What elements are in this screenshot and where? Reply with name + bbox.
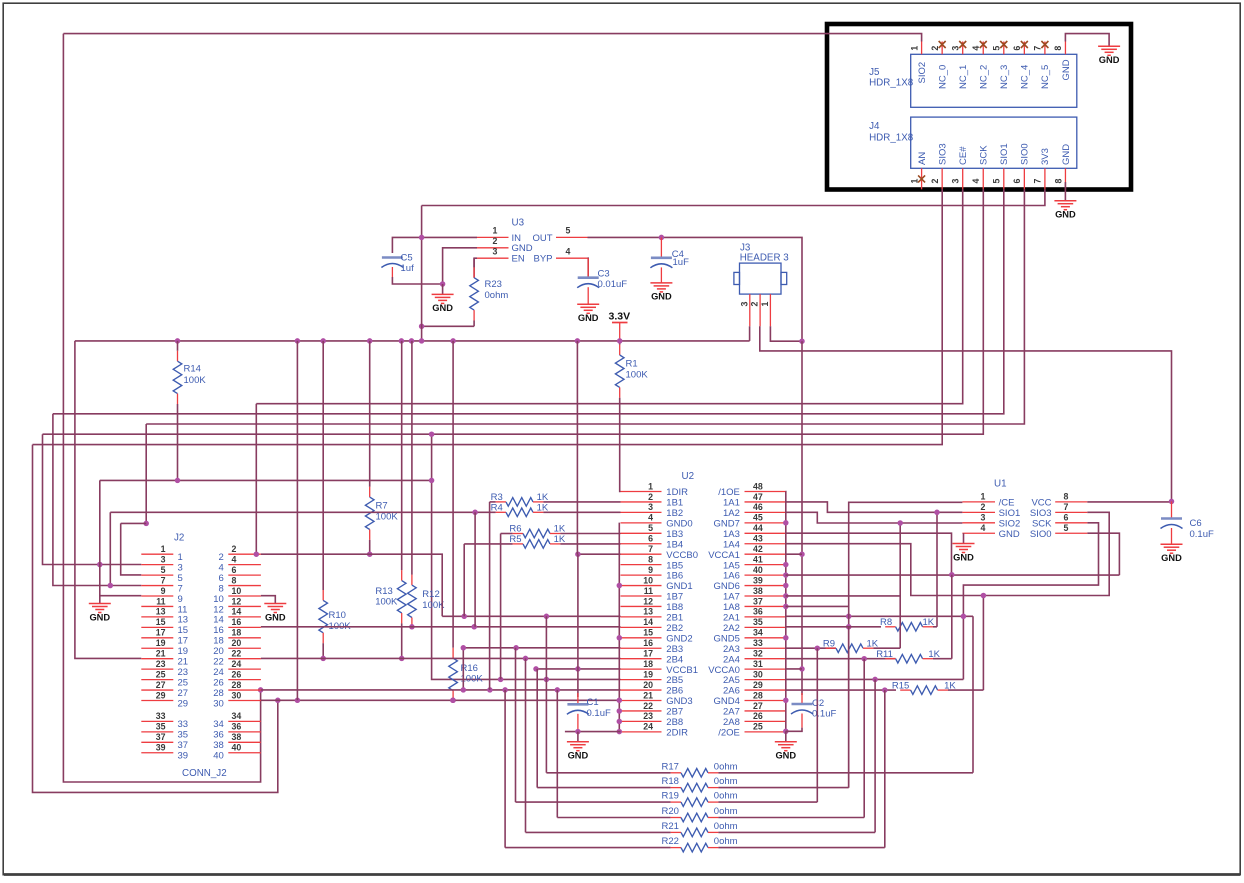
svg-text:GND: GND	[775, 751, 796, 761]
junction C4 tap	[659, 235, 665, 241]
svg-text:22: 22	[643, 701, 653, 711]
svg-text:3: 3	[951, 179, 961, 184]
svg-text:0ohm: 0ohm	[714, 806, 738, 817]
svg-text:SCK: SCK	[979, 145, 990, 165]
svg-text:2A8: 2A8	[723, 717, 740, 728]
svg-text:6: 6	[648, 534, 653, 544]
svg-text:4: 4	[648, 513, 653, 523]
svg-text:26: 26	[753, 711, 763, 721]
svg-text:8: 8	[1064, 492, 1069, 502]
svg-text:HDR_1X8: HDR_1X8	[869, 132, 914, 143]
svg-text:19: 19	[156, 638, 166, 648]
ground symbol below C6	[1161, 544, 1183, 563]
svg-text:1A7: 1A7	[723, 592, 740, 603]
svg-text:0.1uF: 0.1uF	[812, 708, 836, 719]
wire J3 pin2 long wire to C6	[760, 326, 1172, 501]
svg-text:25: 25	[178, 677, 189, 688]
wire R22 left riser	[504, 690, 506, 848]
svg-text:21: 21	[178, 657, 189, 668]
svg-text:1: 1	[981, 492, 986, 502]
wire 2B3 row drop to 2B6 row	[462, 648, 464, 690]
svg-text:1B2: 1B2	[666, 508, 683, 519]
wire 1A4 to U1 SIO3 route	[786, 512, 1110, 595]
wire SIO3 row down to bottom rail	[33, 445, 278, 793]
svg-text:3V3: 3V3	[1040, 148, 1051, 165]
svg-text:25: 25	[156, 669, 166, 679]
wire SCK row down to J2 pin3	[43, 434, 142, 564]
junction 3.3V vertical at U3 IN wire	[419, 235, 425, 241]
svg-text:1A4: 1A4	[723, 539, 740, 550]
wire 2B3 row to U2	[463, 647, 620, 649]
wire U1 GND drop	[963, 533, 965, 543]
wire J3 pin3 to 3.3V bus	[749, 326, 751, 341]
svg-text:11: 11	[156, 596, 165, 606]
svg-text:R23: R23	[485, 279, 502, 290]
wire J2 pin22 row to U2 2B4	[261, 657, 621, 659]
resistor R14 100K	[173, 341, 206, 481]
svg-text:2B6: 2B6	[666, 686, 683, 697]
svg-text:100K: 100K	[376, 512, 399, 523]
svg-text:9: 9	[161, 586, 166, 596]
junction SCK drop on 2A1 row	[961, 614, 967, 620]
svg-text:1K: 1K	[867, 638, 879, 649]
svg-text:GND3: GND3	[666, 696, 692, 707]
wire 3.3V horizontal bus	[75, 340, 750, 342]
svg-text:33: 33	[156, 711, 166, 721]
junction R23/3.3V vertical	[419, 324, 425, 330]
wire bus drop to pin30 row	[296, 341, 298, 700]
wire 1A1 to U1 SIO1	[786, 502, 963, 512]
svg-text:/2OE: /2OE	[718, 727, 740, 738]
junction on 3.3V bus	[399, 338, 405, 344]
svg-text:38: 38	[753, 586, 763, 596]
svg-text:/1OE: /1OE	[718, 487, 740, 498]
svg-text:1A1: 1A1	[723, 498, 740, 509]
svg-text:26: 26	[232, 669, 242, 679]
svg-text:8: 8	[219, 583, 224, 594]
junction on 3.3V bus	[175, 338, 181, 344]
wire J4 pin4 SCK down to row	[43, 189, 984, 434]
svg-text:23: 23	[156, 659, 166, 669]
ground symbol right of J2	[264, 604, 286, 623]
svg-text:U1: U1	[994, 479, 1007, 490]
svg-text:3: 3	[648, 502, 653, 512]
junction R15/SIO3	[981, 593, 987, 599]
resistor R21 0ohm	[526, 821, 876, 837]
svg-text:SIO1: SIO1	[999, 143, 1010, 165]
svg-text:NC_1: NC_1	[958, 65, 969, 89]
regulator U3 (IN,GND,EN / OUT,BYP)	[477, 218, 588, 265]
svg-text:GND: GND	[568, 751, 589, 761]
ground symbol below C3	[577, 304, 599, 323]
junction SIO0 branch	[143, 521, 149, 527]
svg-text:SIO3: SIO3	[1030, 508, 1052, 519]
svg-text:6: 6	[232, 565, 237, 575]
svg-text:35: 35	[753, 617, 763, 627]
wire 2A6 row	[786, 689, 897, 691]
svg-text:36: 36	[753, 607, 763, 617]
svg-text:SIO0: SIO0	[1020, 143, 1031, 165]
wire R5 left drop	[463, 544, 465, 616]
svg-text:39: 39	[753, 575, 763, 585]
svg-text:4: 4	[971, 46, 981, 51]
svg-text:3: 3	[161, 554, 166, 564]
resistor R9 1K	[823, 638, 900, 652]
svg-text:0ohm: 0ohm	[714, 761, 738, 772]
resistor R15 1K	[892, 680, 984, 694]
svg-text:U2: U2	[682, 471, 695, 482]
svg-text:1K: 1K	[554, 524, 566, 535]
svg-text:2: 2	[648, 492, 653, 502]
svg-text:1uf: 1uf	[401, 263, 415, 274]
svg-text:1A6: 1A6	[723, 571, 740, 582]
wire VCCB rail from bus	[576, 341, 578, 554]
wire 3.3V vertical from 3V3 row to bus	[421, 206, 423, 342]
svg-text:VCC: VCC	[1031, 498, 1051, 509]
svg-text:0ohm: 0ohm	[714, 836, 738, 847]
svg-text:8: 8	[648, 554, 653, 564]
svg-text:R21: R21	[662, 821, 679, 832]
svg-text:36: 36	[232, 722, 242, 732]
junction 2A6 at R22 riser	[882, 687, 888, 693]
wire C5 top to U3 IN	[392, 237, 477, 253]
svg-text:17: 17	[643, 649, 653, 659]
svg-text:NC_2: NC_2	[979, 65, 990, 89]
junction 2A4 at R20 riser	[861, 656, 867, 662]
svg-text:15: 15	[156, 617, 166, 627]
svg-text:6: 6	[219, 573, 224, 584]
junction 2B3 row taps	[461, 645, 519, 651]
svg-text:30: 30	[213, 698, 224, 709]
junction J3 pin1 / OUT vertical	[799, 338, 805, 344]
svg-text:16: 16	[232, 617, 242, 627]
svg-text:41: 41	[753, 554, 763, 564]
svg-text:2A2: 2A2	[723, 623, 740, 634]
svg-text:37: 37	[156, 732, 166, 742]
svg-text:IN: IN	[512, 233, 522, 244]
svg-text:1: 1	[178, 552, 183, 563]
svg-text:23: 23	[178, 667, 189, 678]
wire R20 left riser	[556, 690, 558, 818]
svg-text:1: 1	[161, 544, 166, 554]
junction R4 riser on J2 pin7 row	[108, 583, 114, 589]
resistor R11 1K	[876, 649, 952, 663]
svg-text:26: 26	[213, 677, 224, 688]
svg-text:/CE: /CE	[999, 498, 1015, 509]
svg-text:R17: R17	[662, 761, 679, 772]
wire VCCB0 row from rail B	[578, 553, 621, 555]
svg-text:18: 18	[232, 628, 242, 638]
wire CE# row down to J2 pin2 net	[255, 404, 257, 555]
wire R15 right riser to SIO3 row	[982, 596, 984, 691]
svg-text:27: 27	[178, 688, 189, 699]
svg-text:C5: C5	[401, 252, 413, 263]
junction 2B6 row taps	[487, 687, 560, 693]
resistor R18 0ohm	[537, 776, 849, 792]
resistor R8 1K	[880, 617, 937, 631]
svg-text:30: 30	[232, 690, 242, 700]
wire J4 pin8 to GND	[1064, 182, 1066, 201]
svg-text:1uF: 1uF	[673, 257, 690, 268]
wire R21 left riser	[525, 658, 527, 832]
wire U1 SCK route down to 2A5 row	[963, 523, 1098, 680]
resistor R3 1K	[490, 492, 621, 506]
junction VCC/C6	[1169, 499, 1175, 505]
svg-text:U3: U3	[512, 218, 525, 229]
svg-text:GND0: GND0	[666, 518, 692, 529]
wire U3 OUT to right vertical	[588, 237, 803, 341]
svg-text:R9: R9	[823, 638, 835, 649]
svg-text:14: 14	[232, 607, 242, 617]
svg-text:1DIR: 1DIR	[666, 487, 688, 498]
svg-text:2: 2	[930, 179, 940, 184]
svg-text:7: 7	[161, 575, 166, 585]
svg-text:VCCB1: VCCB1	[666, 665, 698, 676]
junction 1A3/SIO0	[949, 572, 955, 578]
svg-text:2B2: 2B2	[666, 623, 683, 634]
svg-text:GND: GND	[953, 552, 974, 562]
svg-text:33: 33	[178, 719, 189, 730]
junction R12 bottom on pin16 row	[409, 624, 415, 630]
junction 2B3 drop on 2B6 row	[461, 687, 467, 693]
wire VCCA1 row	[786, 553, 803, 555]
svg-text:10: 10	[643, 575, 653, 585]
svg-text:100K: 100K	[626, 370, 649, 381]
black highlight box around headers J4 and J5	[827, 24, 1131, 190]
svg-text:GND: GND	[1161, 553, 1182, 563]
svg-text:1K: 1K	[554, 534, 566, 545]
svg-text:24: 24	[213, 667, 224, 678]
svg-text:2B4: 2B4	[666, 654, 683, 665]
ground symbol left of J2	[89, 596, 111, 623]
svg-text:0ohm: 0ohm	[485, 290, 509, 301]
svg-text:NC_4: NC_4	[1020, 65, 1031, 89]
wire R21 right riser	[874, 679, 876, 832]
svg-text:5: 5	[648, 523, 653, 533]
svg-text:BYP: BYP	[533, 254, 552, 265]
wire SIO1 row down to J2 pin7	[53, 414, 141, 586]
junction R14 bottom	[175, 478, 181, 484]
svg-text:18: 18	[643, 659, 653, 669]
svg-text:NC_3: NC_3	[999, 65, 1010, 89]
svg-text:28: 28	[232, 680, 242, 690]
wire J4 pin3 CE# down to row	[256, 189, 962, 403]
svg-text:2: 2	[981, 502, 986, 512]
svg-text:43: 43	[753, 534, 763, 544]
wire 2A2 row	[786, 626, 882, 628]
connector J3 HEADER 3	[734, 243, 789, 327]
wire R3 left drop	[489, 502, 491, 690]
svg-text:3: 3	[981, 513, 986, 523]
ground symbol below C1	[567, 732, 589, 761]
svg-text:0.1uF: 0.1uF	[1190, 529, 1214, 540]
svg-text:6: 6	[1012, 179, 1022, 184]
svg-text:EN: EN	[512, 254, 525, 265]
resistor R10 100K	[319, 341, 351, 659]
svg-text:2A1: 2A1	[723, 613, 740, 624]
svg-text:34: 34	[213, 719, 224, 730]
wire 2DIR ground row	[565, 731, 621, 733]
svg-text:2A7: 2A7	[723, 707, 740, 718]
svg-text:0.1uF: 0.1uF	[587, 708, 611, 719]
svg-text:0ohm: 0ohm	[714, 821, 738, 832]
svg-text:2: 2	[750, 302, 760, 307]
svg-text:37: 37	[178, 740, 189, 751]
wire R9 right to SIO2	[899, 523, 901, 648]
svg-text:R11: R11	[876, 649, 893, 660]
wire ground node stem	[442, 284, 444, 294]
wire R19 left riser	[515, 648, 517, 802]
svg-text:8: 8	[1053, 46, 1063, 51]
resistor R7 100K	[365, 341, 398, 540]
wire 2A1 row	[786, 615, 974, 617]
junction R21 riser on 2A5 row	[872, 677, 878, 683]
svg-text:R19: R19	[662, 791, 679, 802]
wire 1A3 row to SIO0 net	[786, 533, 952, 575]
IC U2 48-pin bus transceiver	[621, 471, 786, 738]
svg-text:GND: GND	[89, 612, 110, 622]
capacitor C4	[650, 237, 689, 283]
svg-text:21: 21	[156, 649, 166, 659]
junction CE drop on 2A1 row	[846, 614, 852, 620]
junction 2B4 row tap	[523, 656, 529, 662]
svg-text:GND4: GND4	[713, 696, 739, 707]
junction ground node below U3	[440, 281, 446, 287]
capacitor C5	[381, 252, 414, 277]
svg-text:SIO1: SIO1	[999, 508, 1021, 519]
svg-text:R13: R13	[375, 586, 392, 597]
svg-text:6: 6	[1012, 46, 1022, 51]
svg-text:14: 14	[213, 615, 224, 626]
svg-text:20: 20	[213, 646, 224, 657]
svg-text:1A8: 1A8	[723, 602, 740, 613]
wire top-left vertical long run	[63, 34, 260, 782]
wire U1 SIO0 drop	[1087, 533, 1119, 575]
wire 1A7 row	[786, 595, 901, 597]
wire VCCB1 row	[536, 668, 621, 670]
svg-text:7: 7	[1033, 46, 1043, 51]
ground symbol below C4	[650, 283, 672, 302]
svg-text:CONN_J2: CONN_J2	[182, 768, 227, 779]
svg-text:2: 2	[232, 544, 237, 554]
wire U1 VCC to C6	[1087, 501, 1171, 503]
svg-text:15: 15	[643, 628, 653, 638]
svg-text:2A6: 2A6	[723, 686, 740, 697]
wire U2 right ground rail from /1OE	[783, 492, 789, 735]
svg-text:7: 7	[1064, 502, 1069, 512]
svg-text:5: 5	[178, 573, 183, 584]
svg-text:5: 5	[1064, 523, 1069, 533]
svg-text:22: 22	[232, 649, 242, 659]
svg-text:1: 1	[909, 179, 919, 184]
svg-text:39: 39	[156, 743, 166, 753]
svg-text:GND: GND	[512, 243, 533, 254]
svg-text:7: 7	[178, 583, 183, 594]
svg-text:1: 1	[760, 302, 770, 307]
svg-text:R7: R7	[376, 501, 388, 512]
junction VCCA0 tap	[799, 666, 805, 672]
ground symbol below J4 pin8	[1054, 201, 1076, 220]
svg-text:39: 39	[178, 751, 189, 762]
svg-text:18: 18	[213, 636, 224, 647]
svg-text:SIO0: SIO0	[1030, 529, 1052, 540]
svg-text:11: 11	[644, 586, 653, 596]
wire bus left end down to J2 pin21	[75, 341, 141, 659]
svg-text:GND: GND	[999, 529, 1020, 540]
connector J5 HDR_1X8 with pins 1-8 (SIO2,NC_0..NC_5,GND)	[869, 42, 1077, 108]
wire 2A3 row	[786, 647, 837, 649]
junction on 3.3V bus	[367, 338, 373, 344]
wire R17 left riser	[545, 616, 547, 773]
svg-text:3: 3	[951, 46, 961, 51]
svg-text:13: 13	[178, 615, 189, 626]
resistor R6 1K	[501, 524, 621, 538]
svg-text:1A5: 1A5	[723, 560, 740, 571]
svg-text:R6: R6	[509, 524, 521, 535]
wire VCCB rail down to C1	[577, 554, 579, 697]
svg-text:2A3: 2A3	[723, 644, 740, 655]
svg-text:24: 24	[643, 722, 653, 732]
IC U1 serial flash (CE,SIO,SCK)	[962, 479, 1087, 540]
junction riser on R14 row	[429, 478, 435, 484]
wire C5 bottom to ground node	[392, 277, 442, 284]
wire R18 left riser	[536, 669, 538, 788]
wire J5 pin8 to GND	[1065, 34, 1109, 47]
svg-text:9: 9	[648, 565, 653, 575]
svg-text:R22: R22	[662, 836, 679, 847]
svg-text:1B5: 1B5	[666, 560, 683, 571]
junction C1 bottom	[575, 729, 581, 735]
svg-text:GND: GND	[651, 292, 672, 302]
svg-text:35: 35	[178, 730, 189, 741]
svg-text:HDR_1X8: HDR_1X8	[869, 78, 914, 89]
svg-text:1B8: 1B8	[666, 602, 683, 613]
wire J5 pin1 SIO2 to top-left net	[63, 34, 921, 42]
svg-text:19: 19	[178, 646, 189, 657]
svg-text:12: 12	[232, 596, 242, 606]
svg-text:4: 4	[232, 554, 237, 564]
svg-text:GND1: GND1	[666, 581, 692, 592]
wire R18 right riser	[848, 627, 850, 788]
capacitor C1	[567, 693, 611, 732]
svg-text:40: 40	[753, 565, 763, 575]
svg-text:J2: J2	[174, 533, 184, 544]
svg-text:28: 28	[213, 688, 224, 699]
resistor R20 0ohm	[557, 806, 864, 822]
svg-text:2B8: 2B8	[666, 717, 683, 728]
junction R8/SIO1	[934, 510, 940, 516]
wire R19 right riser	[816, 648, 818, 802]
junction 2B2 row tap	[471, 624, 477, 630]
wire J2 pin10 to ground	[261, 596, 275, 604]
svg-text:GND: GND	[265, 612, 286, 622]
junction on 3.3V bus	[617, 338, 623, 344]
svg-text:1K: 1K	[537, 503, 549, 514]
junction on 3.3V bus	[295, 338, 301, 344]
wire J4 pin7 3V3 down and left to U3 area	[422, 189, 1045, 205]
no-connect X mark on J4 pin1	[918, 175, 925, 182]
svg-text:0.01uF: 0.01uF	[598, 279, 628, 290]
wire VCCA vertical from U3 OUT	[801, 341, 803, 695]
resistor R22 0ohm	[505, 836, 885, 852]
svg-text:HEADER 3: HEADER 3	[740, 253, 790, 264]
wire J2 pin2 row to corner	[261, 554, 442, 616]
svg-text:2A4: 2A4	[723, 654, 740, 665]
capacitor C3	[577, 258, 627, 304]
wire R20 right riser	[863, 659, 865, 818]
svg-text:3: 3	[739, 302, 749, 307]
svg-text:GND: GND	[1061, 144, 1072, 165]
